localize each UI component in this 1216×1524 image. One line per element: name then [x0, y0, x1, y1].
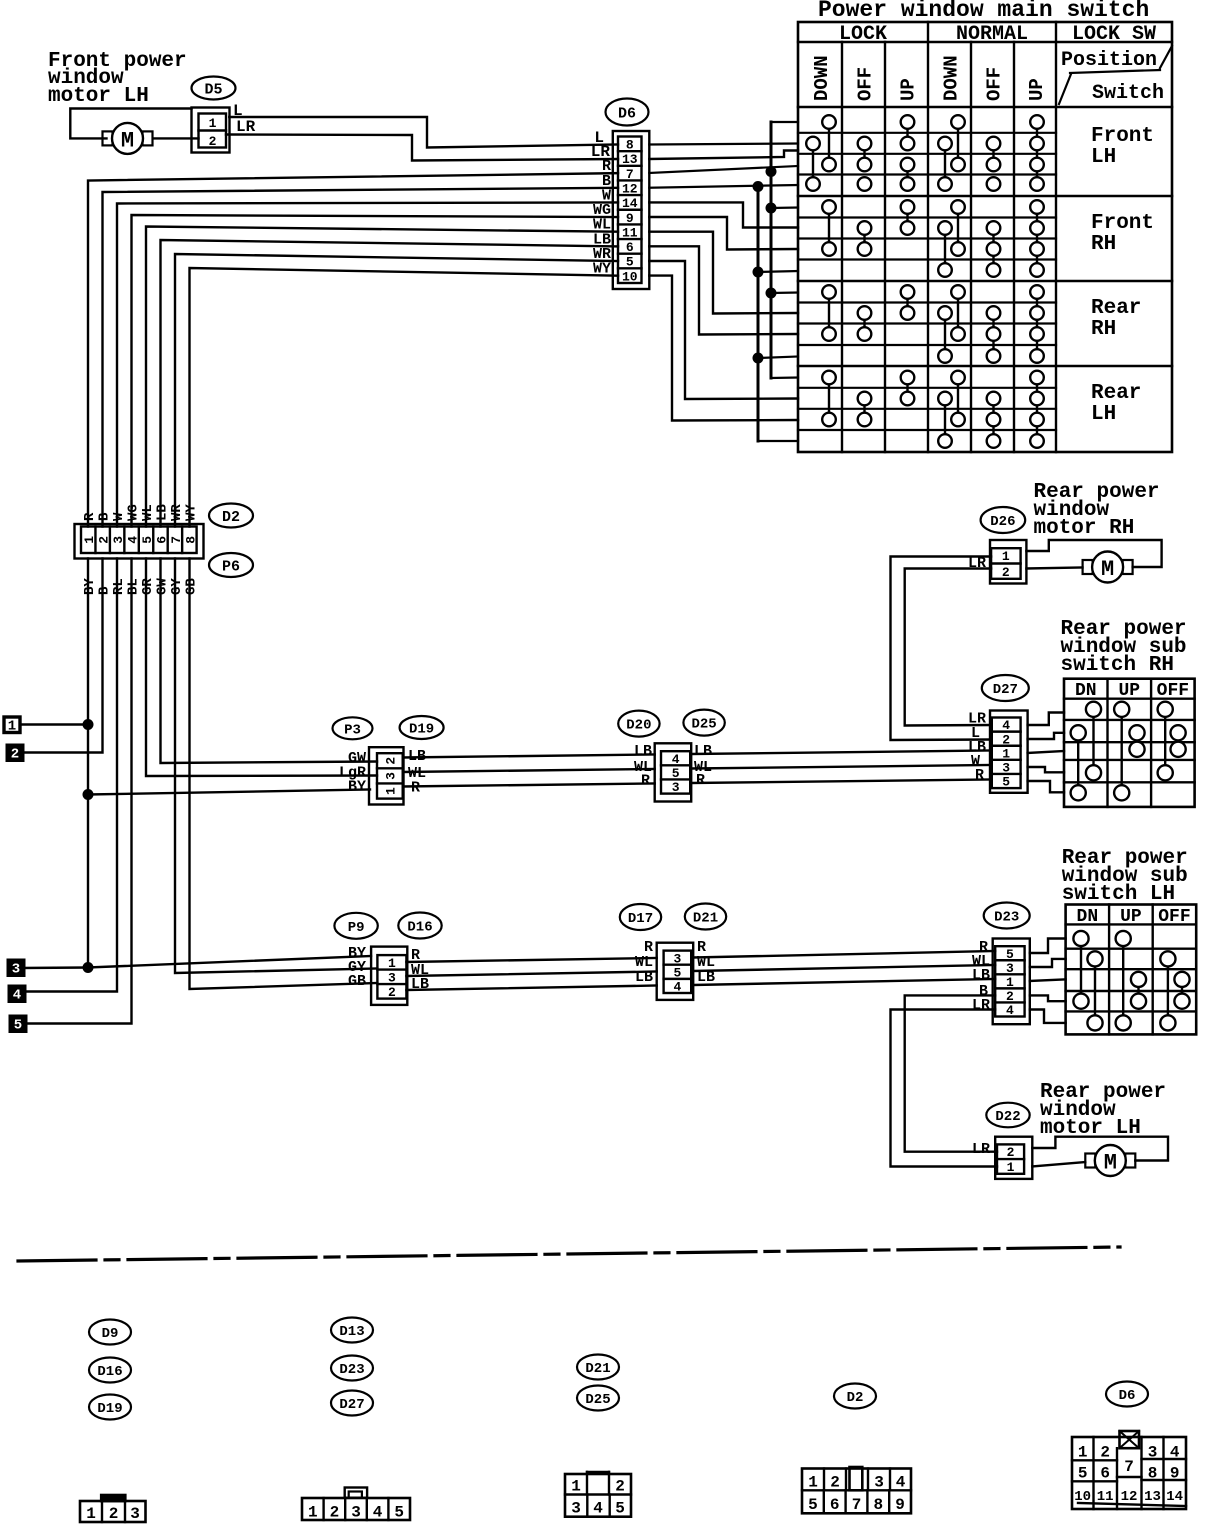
svg-text:9: 9	[895, 1496, 905, 1514]
wire GR to P3 pin2	[146, 559, 377, 777]
label: Rear power window motor LH	[1040, 1081, 1166, 1140]
svg-text:P6: P6	[222, 558, 240, 575]
svg-text:D20: D20	[626, 718, 651, 734]
svg-text:5: 5	[626, 255, 634, 270]
legend oval D13	[331, 1318, 373, 1343]
svg-text:8: 8	[873, 1496, 883, 1514]
svg-text:switch LH: switch LH	[1062, 883, 1175, 906]
wire D6 pin11 to table row10	[649, 232, 798, 314]
wire bundle D6 to D2 (8 wires)	[88, 173, 618, 526]
wires D23 to sub switch LH	[1030, 939, 1066, 1023]
connector P6 oval	[209, 553, 253, 577]
svg-text:4: 4	[1170, 1444, 1180, 1462]
svg-text:P3: P3	[344, 722, 361, 738]
svg-text:2: 2	[209, 134, 217, 149]
svg-text:D27: D27	[339, 1397, 364, 1413]
terminal box 1	[4, 717, 20, 735]
wire GW to P3 pin1	[161, 559, 378, 764]
svg-text:2: 2	[109, 1505, 119, 1523]
svg-text:D26: D26	[990, 514, 1015, 530]
svg-text:GB: GB	[348, 973, 366, 990]
svg-text:1: 1	[209, 116, 217, 131]
svg-text:D2: D2	[847, 1390, 864, 1406]
separator chain line	[18, 1247, 1120, 1261]
svg-text:2: 2	[1007, 1145, 1015, 1160]
svg-text:DN: DN	[1075, 681, 1097, 701]
legend connector face D6 (14-pin 3-row)	[1072, 1431, 1186, 1509]
svg-text:LB: LB	[694, 743, 712, 760]
svg-text:5: 5	[808, 1496, 818, 1514]
connector D27 oval	[982, 675, 1029, 701]
wire LB row A	[403, 751, 992, 758]
wire D6 pin7 to table row3	[649, 166, 798, 173]
connector D22 oval	[986, 1103, 1029, 1128]
svg-text:D23: D23	[994, 910, 1019, 926]
wire labels at D25 right	[694, 743, 712, 789]
title: Power window main switch	[818, 0, 1149, 23]
svg-text:D19: D19	[409, 722, 434, 738]
legend oval D16	[89, 1358, 131, 1383]
svg-text:4: 4	[1002, 718, 1010, 733]
connector D5 oval	[192, 77, 236, 100]
svg-text:UP: UP	[898, 78, 920, 101]
wire labels at D20 left	[634, 743, 652, 790]
connector P9/D16	[371, 947, 407, 1005]
legend connector face D13/D23/D27 (5-pin)	[302, 1488, 410, 1522]
main switch rotated headers DOWN OFF UP	[811, 55, 1048, 101]
svg-text:D21: D21	[693, 911, 718, 927]
wire D23 pin2 to D22 pin2	[905, 995, 997, 1151]
wire D22 pin2 loop over motor LH	[1032, 1137, 1168, 1161]
wire LB row B	[406, 979, 995, 990]
svg-text:8: 8	[183, 536, 198, 544]
terminal box 5	[10, 1016, 26, 1034]
wire D6 pin8 to table row2	[649, 144, 798, 145]
wire D22 pin1 to motor LH	[1032, 1162, 1085, 1167]
wire R row B	[406, 951, 995, 962]
svg-text:1: 1	[1002, 746, 1010, 761]
svg-text:D2: D2	[222, 509, 240, 526]
svg-text:DOWN: DOWN	[811, 55, 833, 101]
label: Rear power window sub switch LH	[1062, 847, 1188, 906]
connector P3/D19	[369, 747, 404, 804]
connector D25 oval	[683, 710, 724, 736]
svg-text:14: 14	[622, 196, 638, 211]
main switch Position/Switch cell	[1059, 46, 1172, 105]
svg-text:6: 6	[830, 1496, 840, 1514]
svg-text:LB: LB	[634, 743, 652, 760]
svg-text:2: 2	[388, 985, 396, 1000]
svg-text:2: 2	[1002, 565, 1010, 580]
svg-text:1: 1	[384, 787, 399, 795]
svg-text:7: 7	[626, 167, 634, 182]
connector D17/D21	[657, 943, 694, 1000]
svg-text:RH: RH	[1091, 233, 1116, 256]
wire labels at D17 left	[635, 939, 653, 986]
wire WL row A	[403, 765, 992, 772]
legend oval D27	[331, 1391, 373, 1416]
svg-text:OFF: OFF	[1158, 907, 1190, 927]
svg-text:D19: D19	[97, 1401, 122, 1417]
legend connector face D2 (9-pin 2-row)	[802, 1467, 911, 1514]
svg-text:5: 5	[1078, 1465, 1088, 1483]
svg-text:5: 5	[673, 965, 681, 980]
wire D26 pin2 to motor RH	[1026, 568, 1082, 569]
main switch header LOCK NORMAL LOCK SW	[839, 23, 1156, 46]
motor M rear RH	[1083, 552, 1133, 583]
wire D6 pin10 to table row15	[649, 276, 798, 421]
svg-text:D25: D25	[691, 717, 716, 733]
connector D20/D25	[655, 743, 692, 801]
svg-text:4: 4	[672, 752, 680, 767]
wire D6 pin14 to table row6	[649, 202, 798, 227]
svg-text:RH: RH	[1091, 318, 1116, 341]
svg-text:LB: LB	[972, 967, 990, 984]
svg-text:3: 3	[384, 772, 399, 780]
wire D6 pin9 to table row7	[649, 217, 798, 250]
connector P3 oval	[333, 717, 373, 739]
wire labels at D21 right	[697, 939, 715, 986]
svg-text:LOCK: LOCK	[839, 23, 887, 46]
connector P9 oval	[334, 913, 377, 939]
svg-text:1: 1	[308, 1504, 318, 1522]
wire labels at D6 left	[593, 158, 611, 278]
wire labels at P9/D16 right	[411, 947, 429, 993]
svg-text:3: 3	[111, 536, 126, 544]
wire D26 pin2 to D27 pin4	[905, 569, 992, 726]
connector D26	[990, 540, 1026, 584]
main switch table frame	[798, 22, 1172, 452]
label: Front power window motor LH	[48, 50, 187, 108]
sub switch LH table	[1066, 905, 1197, 1035]
svg-text:3: 3	[1148, 1444, 1158, 1462]
svg-text:6: 6	[1100, 1465, 1110, 1483]
terminal box 3	[8, 960, 24, 978]
svg-text:7: 7	[169, 536, 184, 544]
svg-text:D9: D9	[102, 1326, 119, 1342]
svg-text:LR: LR	[972, 997, 990, 1014]
svg-text:OFF: OFF	[1157, 681, 1189, 701]
wire labels at D23 left	[972, 939, 990, 1014]
svg-text:LB: LB	[635, 969, 653, 986]
svg-text:BY: BY	[348, 779, 366, 796]
main switch name Rear RH	[1091, 297, 1141, 341]
svg-text:GB: GB	[184, 578, 200, 595]
main switch name Rear LH	[1091, 382, 1141, 426]
svg-text:2: 2	[330, 1504, 340, 1522]
legend oval D19	[89, 1395, 131, 1420]
svg-text:4: 4	[1006, 1003, 1014, 1018]
svg-text:5: 5	[672, 766, 680, 781]
svg-text:3: 3	[672, 780, 680, 795]
label: Rear power window motor RH	[1034, 481, 1160, 540]
svg-text:11: 11	[622, 225, 638, 240]
svg-text:LR: LR	[972, 1141, 990, 1158]
svg-text:1: 1	[808, 1474, 818, 1492]
legend connector face D9/D16/D19 (3-pin)	[80, 1495, 146, 1523]
legend oval D6	[1106, 1382, 1148, 1407]
svg-text:1: 1	[1006, 975, 1014, 990]
wire labels at P9 left	[348, 945, 366, 990]
svg-text:9: 9	[626, 211, 634, 226]
wire D23 pin4 to D22 pin1	[891, 1010, 998, 1167]
wire L from D5 pin1 to D6 pin8	[229, 102, 618, 148]
svg-text:D17: D17	[628, 911, 653, 927]
connector D2	[75, 524, 204, 559]
svg-text:1: 1	[86, 1505, 96, 1523]
main switch name Front RH	[1091, 212, 1154, 256]
svg-text:D16: D16	[407, 920, 432, 936]
svg-text:OFF: OFF	[984, 67, 1006, 101]
motor M front LH	[103, 123, 153, 154]
wire color labels above D2	[82, 504, 200, 521]
svg-text:2: 2	[830, 1474, 840, 1492]
svg-text:13: 13	[622, 152, 638, 167]
svg-text:6: 6	[154, 536, 169, 544]
svg-text:2: 2	[1002, 732, 1010, 747]
connector D17 oval	[620, 904, 661, 930]
svg-text:R: R	[641, 773, 650, 790]
wire RL to box4	[22, 559, 117, 992]
svg-text:1: 1	[1007, 1160, 1015, 1175]
svg-text:D21: D21	[585, 1361, 610, 1377]
svg-text:1: 1	[388, 956, 396, 971]
svg-text:R: R	[975, 767, 984, 784]
svg-text:5: 5	[615, 1500, 625, 1518]
svg-text:LOCK SW: LOCK SW	[1072, 23, 1156, 46]
connector D21 oval	[685, 904, 726, 930]
svg-text:2: 2	[615, 1478, 625, 1496]
svg-text:DOWN: DOWN	[941, 55, 963, 101]
wire labels at P3/D19 right	[408, 748, 426, 797]
svg-text:5: 5	[140, 536, 155, 544]
svg-text:NORMAL: NORMAL	[956, 23, 1028, 46]
svg-text:11: 11	[1097, 1489, 1114, 1505]
svg-text:switch RH: switch RH	[1061, 654, 1174, 677]
svg-text:12: 12	[1121, 1489, 1138, 1505]
svg-text:DN: DN	[1077, 907, 1099, 927]
wire D6 pin6 to table row11	[649, 246, 798, 334]
svg-text:3: 3	[130, 1505, 140, 1523]
connector D5	[192, 108, 230, 153]
connector D20 oval	[618, 711, 659, 737]
connector D6 oval	[606, 99, 649, 126]
svg-text:Position: Position	[1061, 49, 1157, 72]
svg-text:Switch: Switch	[1092, 82, 1164, 105]
svg-text:13: 13	[1144, 1489, 1161, 1505]
svg-text:1: 1	[571, 1478, 581, 1496]
svg-text:3: 3	[673, 951, 681, 966]
svg-text:5: 5	[394, 1504, 404, 1522]
svg-text:3: 3	[874, 1474, 884, 1492]
svg-text:8: 8	[1148, 1465, 1158, 1483]
svg-text:LR: LR	[236, 118, 256, 136]
svg-text:2: 2	[384, 757, 399, 765]
svg-text:3: 3	[388, 971, 396, 986]
svg-text:6: 6	[626, 240, 634, 255]
svg-text:Front: Front	[1091, 212, 1154, 235]
wire D6 pin5 to table row14	[649, 261, 798, 399]
svg-text:3: 3	[12, 962, 20, 978]
svg-text:10: 10	[622, 269, 638, 284]
connector D6	[613, 131, 650, 289]
svg-text:LB: LB	[697, 969, 715, 986]
wire WL row B	[406, 965, 995, 976]
svg-text:4: 4	[13, 988, 21, 1004]
legend oval D9	[89, 1320, 131, 1345]
connector D16 oval	[398, 913, 441, 939]
svg-text:LH: LH	[1091, 146, 1116, 169]
wire motor-LH to D5 loop	[70, 109, 198, 139]
wire LR from D5 pin2 to D6 pin13	[226, 118, 618, 161]
wire D6 pin13 to table row3 upper	[649, 151, 798, 160]
wire B to box2	[20, 559, 103, 753]
svg-text:D13: D13	[339, 1324, 364, 1340]
wire labels at D27 left	[968, 711, 986, 785]
connector D27	[990, 711, 1028, 793]
connector D26 oval	[981, 507, 1026, 533]
main switch contact grid	[806, 115, 1044, 448]
connector D22	[995, 1137, 1032, 1179]
svg-text:4: 4	[373, 1504, 383, 1522]
connector D2 oval	[209, 504, 253, 528]
svg-text:Power window main switch: Power window main switch	[818, 0, 1149, 23]
svg-text:D16: D16	[97, 1364, 122, 1380]
svg-text:D6: D6	[618, 105, 636, 122]
svg-text:D6: D6	[1119, 1388, 1136, 1404]
svg-text:OFF: OFF	[855, 67, 877, 101]
svg-text:2: 2	[97, 536, 112, 544]
svg-text:motor RH: motor RH	[1034, 517, 1135, 540]
svg-text:10: 10	[1074, 1489, 1091, 1505]
svg-text:Front: Front	[1091, 125, 1154, 148]
svg-text:5: 5	[14, 1018, 22, 1034]
svg-text:1: 1	[82, 536, 97, 544]
wire BY net below D2	[20, 559, 371, 974]
svg-text:9: 9	[1170, 1465, 1180, 1483]
svg-text:7: 7	[1124, 1458, 1134, 1476]
svg-text:7: 7	[852, 1496, 862, 1514]
legend oval D25	[577, 1386, 619, 1411]
wire GY to P9 pin2	[175, 559, 377, 974]
svg-text:1: 1	[1078, 1444, 1088, 1462]
svg-text:D22: D22	[995, 1109, 1020, 1125]
svg-text:D23: D23	[339, 1362, 364, 1378]
wire D26 pin1 loop over motor RH	[1026, 540, 1161, 567]
svg-text:WY: WY	[184, 504, 200, 521]
svg-text:4: 4	[673, 980, 681, 995]
label: Rear power window sub switch RH	[1061, 618, 1187, 677]
svg-text:LH: LH	[1091, 403, 1116, 426]
wire label LR at D26	[968, 555, 986, 572]
wire D26 pin1 to D27 pin2	[891, 557, 992, 741]
terminal box 4	[9, 986, 25, 1004]
legend oval D21	[577, 1355, 619, 1380]
svg-text:M: M	[1101, 557, 1114, 582]
svg-text:Rear: Rear	[1091, 382, 1141, 405]
svg-text:motor LH: motor LH	[48, 85, 149, 108]
svg-text:4: 4	[126, 536, 141, 544]
main switch name Front LH	[1091, 125, 1154, 169]
wire color labels below D2	[82, 578, 200, 595]
svg-text:D27: D27	[993, 682, 1018, 698]
svg-text:3: 3	[1006, 961, 1014, 976]
svg-text:5: 5	[1002, 775, 1010, 790]
bus A vertical	[766, 122, 799, 378]
connector D19 oval	[400, 716, 444, 739]
svg-text:2: 2	[11, 747, 19, 763]
svg-text:4: 4	[896, 1474, 906, 1492]
svg-text:8: 8	[626, 138, 634, 153]
sub switch RH table	[1064, 679, 1195, 807]
svg-text:UP: UP	[1120, 907, 1142, 927]
legend oval D23	[331, 1356, 373, 1381]
wire GB to P9 pin3	[190, 559, 378, 990]
svg-text:3: 3	[351, 1504, 361, 1522]
svg-text:5: 5	[1006, 947, 1014, 962]
wire labels at P3 left	[339, 750, 366, 796]
svg-text:UP: UP	[1026, 78, 1048, 101]
connector D23	[993, 939, 1030, 1025]
svg-text:D25: D25	[585, 1392, 610, 1408]
bus B vertical	[753, 181, 799, 441]
legend oval D2	[834, 1384, 876, 1409]
svg-text:4: 4	[593, 1500, 603, 1518]
svg-text:2: 2	[1100, 1444, 1110, 1462]
wire label LR at D22	[972, 1141, 990, 1158]
svg-text:M: M	[121, 128, 134, 153]
svg-text:Rear: Rear	[1091, 297, 1141, 320]
connector D23 oval	[984, 903, 1030, 929]
svg-text:2: 2	[1006, 989, 1014, 1004]
terminal box 2	[7, 745, 23, 763]
svg-text:R: R	[696, 772, 705, 789]
wire BL to box5	[23, 559, 132, 1024]
svg-text:1: 1	[8, 719, 16, 735]
svg-text:3: 3	[1002, 761, 1010, 776]
svg-text:D5: D5	[204, 81, 222, 98]
wires D27 to sub switch RH	[1028, 713, 1064, 793]
svg-text:14: 14	[1166, 1489, 1183, 1505]
svg-text:M: M	[1104, 1151, 1117, 1176]
svg-text:P9: P9	[348, 920, 365, 936]
legend connector face D21/D25 (5-pin 2-row)	[565, 1472, 631, 1518]
svg-text:R: R	[411, 780, 420, 797]
svg-text:12: 12	[622, 181, 638, 196]
wire R row A	[403, 780, 992, 787]
motor M rear LH	[1085, 1145, 1135, 1176]
svg-text:1: 1	[1002, 549, 1010, 564]
svg-text:3: 3	[571, 1500, 581, 1518]
svg-text:UP: UP	[1118, 681, 1140, 701]
wire D6 pin12 to table row4	[649, 185, 798, 188]
